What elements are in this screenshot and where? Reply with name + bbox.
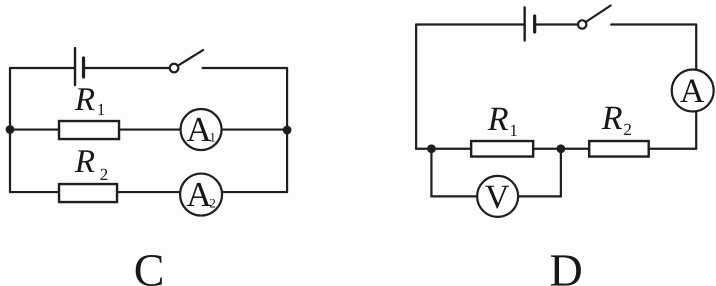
wire: switch to top-right corner: [203, 67, 288, 69]
wire: voltmeter loop: [431, 149, 560, 197]
battery (cell) in D: [525, 8, 535, 41]
battery (cell) in C: [75, 48, 84, 85]
resistor R1 (C): [59, 121, 119, 139]
wire: D top-left segment: [416, 23, 525, 25]
resistor R2 (C): [59, 184, 117, 202]
node: D left junction: [427, 144, 436, 153]
wire: D main branch: [416, 148, 696, 150]
wire: C left vertical: [9, 68, 11, 192]
switch S (open) in D: [578, 6, 611, 29]
wire: D right vertical: [695, 25, 697, 149]
ammeter A2: [180, 174, 222, 216]
svg-text:R: R: [74, 82, 95, 118]
node: C right junction: [283, 126, 292, 135]
switch S (open) in C: [170, 50, 203, 72]
svg-text:1: 1: [97, 100, 106, 119]
svg-text:R: R: [74, 144, 95, 180]
svg-text:R: R: [601, 100, 623, 137]
label R1 (C): [74, 82, 105, 119]
svg-text:D: D: [550, 245, 583, 286]
wire: C right vertical: [286, 68, 288, 192]
svg-text:V: V: [485, 179, 510, 216]
node: D right junction: [556, 144, 565, 153]
svg-text:A: A: [680, 73, 705, 110]
node: C left junction: [6, 125, 15, 134]
svg-text:1: 1: [509, 121, 518, 140]
wire: battery to switch: [84, 67, 170, 69]
wire: switch to top-right corner: [611, 23, 696, 25]
resistor R1 (D): [471, 141, 533, 157]
ammeter A (D): [672, 70, 714, 112]
svg-text:2: 2: [209, 196, 216, 211]
resistor R2 (D): [589, 141, 649, 157]
svg-text:1: 1: [209, 130, 216, 145]
svg-text:2: 2: [100, 165, 109, 184]
wire: R2 bottom branch: [10, 191, 287, 193]
wire: battery to switch: [535, 23, 578, 25]
ammeter A1: [181, 109, 222, 150]
svg-text:2: 2: [623, 120, 632, 139]
svg-text:C: C: [134, 245, 165, 286]
label R2 (D): [601, 100, 632, 139]
label R2 (C): [74, 144, 108, 184]
voltmeter V: [477, 176, 518, 217]
label R1 (D): [487, 101, 518, 140]
wire: D left vertical: [415, 25, 417, 149]
svg-text:R: R: [487, 101, 509, 138]
wire: C top-left segment: [10, 67, 75, 69]
wire: R1 branch: [10, 128, 287, 130]
